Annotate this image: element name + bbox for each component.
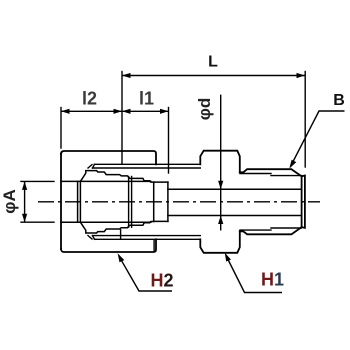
leader H1 arrow — [225, 253, 231, 262]
wire thread root lines — [240, 174, 301, 231]
leader H2 arrow — [118, 253, 125, 262]
leader H2 line — [119, 257, 172, 291]
dim l2 arrows — [61, 109, 70, 114]
wire ferrule rear edge pair — [129, 177, 132, 228]
leader B arrow — [289, 160, 296, 169]
dim L line — [122, 75, 305, 77]
svg-text:φA: φA — [0, 189, 19, 213]
dim L arrows — [122, 73, 131, 78]
leader H1 line — [226, 256, 282, 293]
dim phid leader — [220, 95, 222, 231]
svg-text:B: B — [333, 92, 345, 109]
svg-text:H1: H1 — [261, 270, 284, 290]
wire bore stop block — [154, 182, 168, 221]
wire ferrule cascade top — [80, 171, 153, 183]
dim phid arrows — [218, 181, 223, 190]
wire nut hex corner lines — [121, 151, 155, 252]
wire tube bore lines — [61, 181, 151, 222]
node hex body — [200, 151, 240, 253]
leader B line — [291, 111, 345, 167]
dim l1 arrows — [122, 109, 131, 114]
centerline axis — [38, 201, 320, 203]
dim phiA extension lines — [21, 181, 54, 222]
svg-text:l1: l1 — [139, 89, 154, 109]
svg-text:H2: H2 — [150, 271, 173, 291]
wire nut outline — [61, 151, 156, 252]
wire thread profile — [240, 169, 305, 234]
dim l2 l1 extension lines — [61, 108, 169, 174]
dim l2/l1 line — [61, 110, 169, 112]
wire nut chamfer / neck lines — [88, 164, 200, 239]
svg-text:l2: l2 — [82, 89, 97, 109]
svg-text:L: L — [208, 54, 218, 71]
wire ferrule cascade bottom — [80, 222, 153, 234]
svg-text:φd: φd — [195, 98, 214, 121]
dim phiA arrows — [22, 181, 27, 190]
dim L extension lines — [122, 72, 305, 168]
wire inner bore lines — [168, 189, 302, 215]
dim phiA line — [24, 181, 26, 222]
